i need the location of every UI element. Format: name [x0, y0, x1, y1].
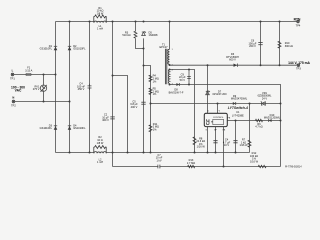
svg-text:GS1010FL: GS1010FL: [73, 47, 86, 51]
svg-text:1 kV: 1 kV: [156, 159, 161, 163]
node dots: [43, 21, 282, 168]
svg-text:LYTSwitch-4: LYTSwitch-4: [228, 106, 248, 110]
resistor R7: [239, 138, 250, 148]
resistor R4: [149, 74, 159, 84]
wire jog column: [113, 76, 128, 153]
diode D9: [231, 94, 248, 105]
capacitor C4: [77, 82, 91, 92]
label input voltage: [11, 85, 25, 92]
zener VR1: [258, 91, 272, 106]
svg-text:1/16 W: 1/16 W: [250, 159, 259, 163]
svg-text:2.7 MΩ: 2.7 MΩ: [187, 161, 195, 165]
terminal N TP2: [11, 96, 16, 108]
svg-text:1/16 W: 1/16 W: [239, 143, 248, 147]
IC U1 LYTSwitch-4: [204, 106, 248, 131]
capacitor BP: [213, 141, 217, 143]
wire C4p column: [235, 121, 237, 153]
svg-text:144 V, 175 mA: 144 V, 175 mA: [288, 61, 310, 65]
svg-text:U1: U1: [236, 110, 240, 114]
svg-text:RTN: RTN: [294, 18, 301, 22]
wire C4 column: [89, 22, 91, 153]
diode D3: [40, 123, 58, 130]
wire R7 column: [249, 104, 251, 153]
capacitor C5: [130, 99, 145, 109]
resistor R8: [193, 136, 205, 148]
diode D10: [264, 113, 281, 122]
wire bottom return: [113, 166, 281, 168]
wire FB pin line: [227, 120, 281, 122]
wire C9 column: [188, 70, 190, 85]
wire V pin stub: [217, 104, 219, 114]
terminal RTN TP4: [294, 18, 301, 28]
svg-text:1/16 W: 1/16 W: [197, 145, 206, 149]
label PI document number: [285, 165, 302, 168]
svg-text:MAZS4700ML: MAZS4700ML: [231, 97, 248, 101]
wire bias bottom: [170, 85, 281, 167]
svg-text:GS1010FL: GS1010FL: [73, 126, 86, 130]
resistor R1 and inductor L1 parallel: [94, 6, 107, 31]
wire bridge leg 1: [55, 22, 57, 153]
svg-text:N: N: [12, 96, 14, 100]
diode D8: [169, 83, 184, 94]
terminal output TP3: [288, 61, 310, 71]
svg-text:1: 1: [172, 49, 173, 51]
svg-text:3.15 A: 3.15 A: [25, 69, 33, 73]
svg-text:510 kΩ: 510 kΩ: [122, 33, 130, 37]
wire S pin column: [207, 127, 209, 153]
svg-text:275 V: 275 V: [33, 87, 40, 91]
transformer T1: [159, 42, 172, 85]
svg-text:TP3: TP3: [296, 67, 301, 71]
varistor RV1: [33, 75, 47, 102]
svg-text:1N4008: 1N4008: [149, 33, 159, 37]
wire divider column: [144, 66, 151, 153]
capacitor C7: [156, 153, 163, 169]
capacitor C2: [102, 113, 115, 123]
svg-text:4.7 kΩ: 4.7 kΩ: [255, 125, 263, 129]
svg-text:1/8 W: 1/8 W: [97, 11, 104, 15]
svg-text:1 mH: 1 mH: [97, 27, 103, 31]
zener diode D7: [206, 89, 227, 96]
resistor R2 and inductor L2 parallel: [94, 135, 107, 164]
capacitor C9: [179, 72, 191, 82]
diode D6 output: [226, 52, 239, 67]
svg-text:400 V: 400 V: [131, 105, 138, 109]
svg-text:GS1010FL: GS1010FL: [40, 126, 53, 130]
fuse F1: [25, 66, 33, 76]
svg-text:VAC: VAC: [15, 89, 22, 93]
resistor R3: [122, 22, 137, 39]
wire V line: [151, 103, 281, 105]
svg-text:CONTROL: CONTROL: [213, 117, 224, 119]
resistor R10: [278, 41, 293, 48]
svg-text:450 V: 450 V: [78, 87, 85, 91]
svg-text:EPC17: EPC17: [159, 45, 168, 49]
wire bridge leg 2: [69, 22, 71, 153]
svg-text:GS1010FL: GS1010FL: [40, 47, 53, 51]
svg-text:4: 4: [172, 70, 173, 72]
capacitor C4 BP value label: [223, 138, 231, 148]
svg-text:3: 3: [172, 84, 173, 86]
wire L input line: [14, 74, 56, 76]
wire bottom source bus: [56, 152, 250, 154]
svg-text:02VZ47-200: 02VZ47-200: [212, 92, 227, 96]
svg-text:600 V: 600 V: [229, 58, 236, 62]
wire drain bus: [170, 64, 297, 66]
wire top rail: [56, 21, 297, 23]
zener diode D5: [142, 30, 158, 37]
capacitor C10: [233, 141, 237, 143]
resistor R11: [149, 122, 159, 132]
svg-text:50 V: 50 V: [180, 78, 186, 82]
svg-text:1 mH: 1 mH: [97, 160, 103, 164]
svg-text:PI-7786-082614: PI-7786-082614: [285, 165, 302, 168]
wire drain column: [207, 65, 209, 113]
svg-text:TP2: TP2: [11, 104, 16, 108]
svg-text:300 kΩ: 300 kΩ: [285, 44, 293, 48]
svg-text:LYT4208E: LYT4208E: [232, 114, 244, 118]
terminal L TP1: [10, 69, 15, 81]
wire C2 column: [112, 22, 114, 167]
svg-text:400 V: 400 V: [102, 118, 109, 122]
resistor R6: [255, 119, 263, 128]
diode D2: [68, 44, 86, 51]
capacitor C6: [249, 39, 263, 49]
resistor R12: [250, 151, 266, 168]
wire FB lower column: [223, 127, 225, 167]
svg-text:24 V: 24 V: [262, 96, 268, 100]
wire N input line: [15, 101, 70, 103]
wire bias top: [170, 70, 195, 153]
wire R10 column: [279, 22, 281, 66]
svg-text:TP1: TP1: [10, 77, 15, 81]
wire C6 column: [260, 22, 262, 66]
resistor R5: [149, 87, 159, 97]
svg-text:2: 2: [172, 64, 173, 66]
svg-text:BAV21W-7-F: BAV21W-7-F: [169, 90, 184, 94]
svg-text:TP4: TP4: [296, 24, 301, 28]
svg-text:10 V: 10 V: [224, 143, 230, 147]
wire transformer primary top: [169, 22, 171, 50]
svg-text:1/8 W: 1/8 W: [97, 141, 104, 145]
svg-text:200 V: 200 V: [249, 44, 256, 48]
svg-text:MAZS1200ML: MAZS1200ML: [264, 116, 281, 120]
diode D1: [40, 44, 58, 51]
wire clamp column C5: [136, 38, 144, 152]
wire BP pin column: [215, 127, 217, 153]
diode D4: [68, 123, 86, 130]
resistor R13: [187, 158, 195, 168]
